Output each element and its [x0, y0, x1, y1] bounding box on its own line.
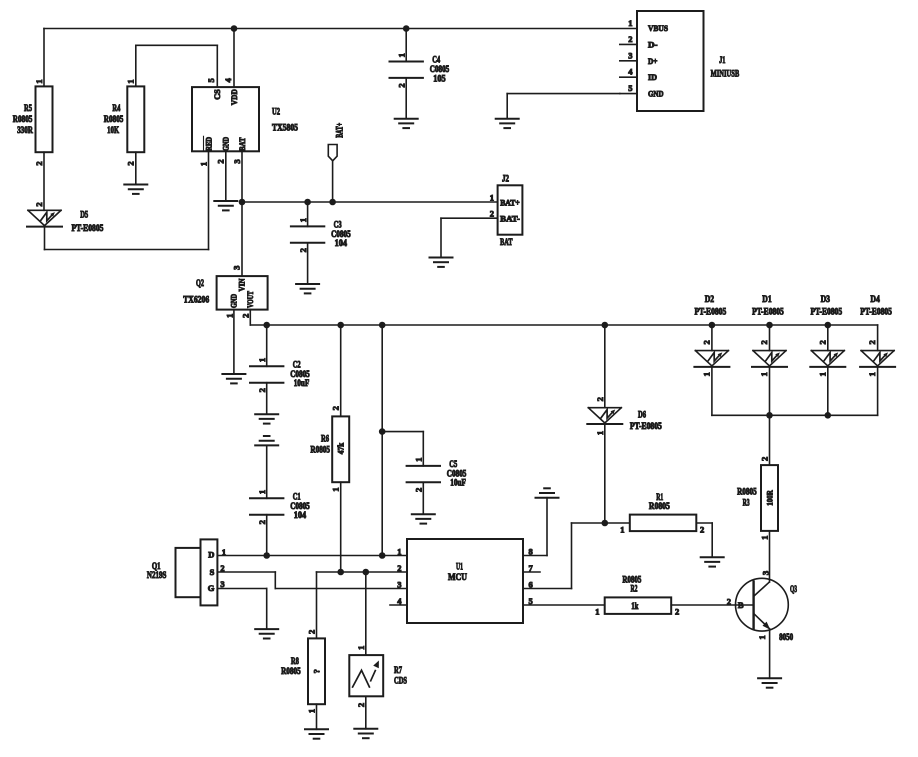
svg-text:2: 2 [867, 340, 877, 344]
node pin2-R6 [337, 569, 344, 576]
svg-text:2: 2 [397, 563, 401, 573]
svg-text:2: 2 [817, 340, 827, 344]
svg-text:D3: D3 [821, 295, 831, 305]
LED D5 [27, 210, 104, 234]
wire Q3 emitter to ground [769, 629, 771, 678]
svg-text:10uF: 10uF [294, 379, 310, 389]
svg-text:U2: U2 [272, 108, 280, 118]
transistor Q3 8050 [736, 578, 798, 643]
wire rail to D1 [759, 325, 770, 351]
pin U1 pin2 number [397, 563, 401, 573]
resistor R2 [595, 576, 679, 617]
resistor R8 [281, 638, 325, 704]
connector J1 MINIUSB [637, 11, 740, 111]
svg-text:2: 2 [126, 161, 136, 165]
pin U1 pin1 number [397, 546, 401, 556]
capacitor C2 [250, 358, 310, 392]
wire U2 GND pin to ground [216, 151, 226, 201]
svg-text:?: ? [311, 669, 321, 673]
svg-text:100R: 100R [765, 490, 775, 506]
wire R5 to D5 [34, 152, 44, 210]
svg-text:RED: RED [203, 137, 213, 151]
svg-text:2: 2 [700, 524, 704, 534]
svg-text:2: 2 [675, 607, 679, 617]
wire C2 to ground [266, 383, 268, 415]
svg-text:N219S: N219S [147, 571, 167, 581]
wire rail down to node [381, 325, 383, 556]
svg-text:BAT: BAT [237, 137, 247, 151]
svg-text:BAT+: BAT+ [500, 197, 520, 207]
svg-text:Q2: Q2 [196, 279, 204, 289]
svg-text:1: 1 [257, 358, 267, 362]
svg-text:8: 8 [529, 546, 533, 556]
svg-text:PT-E0805: PT-E0805 [860, 308, 892, 318]
svg-text:VOUT: VOUT [245, 291, 255, 308]
svg-text:VBUS: VBUS [648, 23, 668, 33]
ground C3 [296, 284, 319, 293]
svg-text:D5: D5 [80, 210, 88, 220]
svg-text:2: 2 [298, 248, 308, 252]
svg-text:C5: C5 [449, 460, 457, 470]
ground R1 [701, 557, 724, 566]
ground R7 [354, 729, 377, 738]
node rail-VDD junction [231, 25, 238, 32]
svg-text:PT-E0805: PT-E0805 [630, 422, 662, 432]
svg-text:CS: CS [212, 89, 222, 100]
svg-text:5: 5 [628, 83, 632, 93]
wire VBUS top rail [44, 28, 637, 30]
svg-text:2: 2 [34, 161, 44, 165]
svg-text:2: 2 [759, 457, 769, 461]
node rail-D3 [825, 322, 832, 329]
IC U2 TX5805 [192, 78, 298, 152]
svg-text:1: 1 [397, 546, 401, 556]
ground U2 GND [214, 201, 237, 210]
svg-text:S: S [210, 567, 215, 577]
svg-text:2: 2 [490, 208, 494, 218]
regulator Q2 TX6206 [183, 276, 267, 318]
capacitor C3 [291, 202, 351, 252]
svg-text:1: 1 [198, 162, 208, 166]
svg-text:R8: R8 [291, 657, 299, 667]
svg-text:104: 104 [335, 239, 348, 249]
LED D2 [694, 295, 729, 376]
power flag BAT+ [328, 123, 344, 202]
svg-text:1: 1 [306, 709, 316, 713]
svg-text:R0805: R0805 [649, 502, 670, 512]
svg-text:MCU: MCU [448, 573, 467, 583]
capacitor C5 [407, 457, 467, 492]
LED D1 [752, 295, 787, 376]
node rail-C2 [263, 322, 270, 329]
wire rail to R5 [43, 29, 45, 87]
svg-text:3: 3 [231, 266, 241, 270]
svg-text:1: 1 [595, 431, 605, 435]
IC U1 MCU [407, 539, 523, 623]
svg-text:C4: C4 [432, 56, 440, 66]
svg-text:1: 1 [867, 372, 877, 376]
node BAT rail junction [239, 199, 246, 206]
wire R8 to ground [306, 704, 316, 729]
svg-text:C3: C3 [334, 220, 342, 230]
wire U1 pin5 to R2 [523, 596, 605, 606]
node C5 branch [379, 428, 386, 435]
wire rail to D4 [867, 325, 878, 351]
wire BAT rail [242, 201, 498, 203]
node rail-D2 [709, 322, 716, 329]
svg-text:2: 2 [240, 314, 250, 318]
ground R8 [305, 729, 328, 738]
svg-text:1: 1 [126, 79, 136, 83]
ground Q1 G [255, 629, 278, 638]
ground C5 [412, 514, 435, 523]
svg-text:1: 1 [356, 646, 366, 650]
svg-text:10uF: 10uF [450, 479, 466, 489]
svg-text:5: 5 [206, 78, 216, 82]
wire inv-ground to C1 [266, 445, 268, 498]
ground C2 [255, 414, 278, 423]
svg-text:1: 1 [759, 372, 769, 376]
svg-text:R2: R2 [631, 584, 638, 594]
svg-text:D+: D+ [648, 56, 658, 66]
wire U1 pin2 net [317, 571, 408, 573]
svg-text:D1: D1 [762, 295, 772, 305]
svg-text:R0805: R0805 [104, 115, 124, 125]
svg-text:1k: 1k [631, 602, 639, 612]
svg-text:J2: J2 [502, 175, 509, 185]
svg-text:GND: GND [221, 137, 231, 151]
resistor R4 [104, 79, 145, 152]
wire D4 to bus [877, 367, 879, 415]
svg-text:1: 1 [628, 18, 632, 28]
svg-text:4: 4 [223, 78, 233, 83]
svg-text:PT-E0805: PT-E0805 [810, 308, 842, 318]
svg-text:2: 2 [216, 159, 226, 163]
svg-text:PT-E0805: PT-E0805 [72, 224, 104, 234]
node BAT rail-C3 [304, 199, 311, 206]
node rail-C5 [379, 322, 386, 329]
svg-text:R0805: R0805 [310, 446, 330, 456]
svg-text:BAT: BAT [500, 238, 513, 248]
svg-text:2: 2 [759, 340, 769, 344]
svg-text:D4: D4 [870, 295, 880, 305]
wire J1 pin2 stub [620, 34, 637, 45]
node rail-C4 junction [403, 25, 410, 32]
pin U1 pin3 number [397, 579, 401, 589]
svg-text:VDD: VDD [229, 89, 239, 105]
LED D4 [860, 295, 895, 376]
wire U1 pin7 stub [523, 563, 540, 573]
svg-text:2: 2 [331, 406, 341, 410]
svg-text:1: 1 [414, 457, 424, 461]
svg-text:C1: C1 [293, 492, 301, 502]
svg-text:2: 2 [701, 340, 711, 344]
svg-text:R4: R4 [112, 104, 120, 114]
svg-text:D2: D2 [705, 295, 715, 305]
node D6-R1-pin6 [602, 520, 609, 527]
ground Q2 [222, 374, 245, 383]
ground R4 [124, 185, 147, 194]
svg-text:Q3: Q3 [790, 585, 797, 595]
svg-text:C2: C2 [293, 360, 301, 370]
resistor R1 [620, 493, 704, 534]
svg-text:2: 2 [220, 563, 224, 573]
wire rail to D2 [701, 325, 712, 351]
ground Q3 [758, 678, 781, 687]
wire R2 to Q3 base [671, 597, 753, 607]
svg-text:3: 3 [628, 50, 632, 60]
resistor R6 [310, 416, 349, 482]
wire D1 to bus [769, 367, 771, 415]
svg-text:2: 2 [356, 703, 366, 707]
svg-text:BAT-: BAT- [500, 213, 520, 223]
capacitor C4 [390, 53, 450, 87]
wire U1 pin8 to inv-ground [523, 498, 547, 557]
wire rail to D6 [595, 325, 605, 408]
wire R3 to Q3 collector [759, 531, 770, 582]
svg-text:1: 1 [759, 535, 769, 539]
wire Q1 G to ground [217, 589, 266, 630]
svg-text:B: B [738, 600, 744, 610]
svg-text:1: 1 [817, 372, 827, 376]
wire J1 pin3 stub [620, 50, 637, 61]
ground inverted above C1 [255, 436, 278, 445]
svg-text:R0805: R0805 [281, 667, 301, 677]
svg-text:10K: 10K [107, 126, 119, 136]
svg-text:3: 3 [760, 571, 770, 575]
wire rail to R6 [331, 325, 341, 416]
svg-text:J1: J1 [719, 56, 726, 66]
svg-text:2: 2 [397, 83, 407, 87]
wire C4 to ground [405, 78, 407, 119]
svg-text:47k: 47k [336, 443, 346, 455]
svg-text:1: 1 [257, 490, 267, 494]
svg-text:2: 2 [628, 34, 632, 44]
ground J1 GND [496, 119, 519, 128]
svg-text:1: 1 [757, 635, 767, 639]
wire LED cathode bus [712, 414, 878, 416]
wire D3 to bus [827, 367, 829, 415]
svg-text:4: 4 [628, 67, 633, 77]
wire Q2 GND to ground [233, 310, 235, 374]
svg-text:1: 1 [701, 372, 711, 376]
svg-text:2: 2 [257, 520, 267, 524]
wire pin2 net to R7 [356, 572, 366, 655]
node rail-R6 [337, 322, 344, 329]
svg-text:3: 3 [397, 579, 401, 589]
ground C4 [395, 119, 418, 128]
resistor R3 [737, 465, 778, 531]
svg-text:5: 5 [529, 596, 533, 606]
wire U1 pin3 net (Q1 S) [217, 572, 407, 589]
svg-text:6: 6 [529, 579, 533, 589]
wire J1 pin4 stub [620, 67, 637, 78]
wire branch to C5 [382, 432, 423, 466]
svg-text:1: 1 [224, 314, 234, 318]
photoresistor R7 CDS [349, 655, 407, 696]
svg-text:R5: R5 [24, 104, 32, 114]
wire rail to C2 [266, 325, 268, 366]
svg-text:U1: U1 [456, 562, 463, 572]
wire C5 to ground [422, 482, 424, 514]
wire R6 to pin2 net [331, 482, 341, 572]
pin J1 pin1 number [628, 18, 632, 28]
wire R7 to ground [356, 696, 366, 729]
node pin1-C1 [263, 552, 270, 559]
svg-text:R0805: R0805 [737, 487, 757, 497]
capacitor C1 [250, 490, 310, 525]
wire rail to C4 [405, 29, 407, 62]
node bus-D1 [766, 412, 773, 419]
svg-text:1: 1 [490, 192, 494, 202]
svg-text:R0805: R0805 [13, 115, 33, 125]
svg-text:2: 2 [595, 397, 605, 401]
node pin1-C5branch [379, 552, 386, 559]
svg-text:GND: GND [648, 89, 664, 99]
svg-text:ID: ID [648, 72, 657, 82]
svg-text:104: 104 [294, 511, 307, 521]
svg-text:2: 2 [34, 202, 44, 206]
svg-text:R7: R7 [394, 666, 402, 676]
svg-text:1: 1 [397, 53, 407, 57]
svg-text:D6: D6 [638, 411, 646, 421]
node bus-D3 [825, 412, 832, 419]
node rail-D1 [766, 322, 773, 329]
svg-text:1: 1 [298, 218, 308, 222]
connector J2 BAT [490, 175, 523, 249]
svg-text:2: 2 [727, 597, 731, 607]
wire D6 to R1 node [595, 424, 605, 523]
svg-text:CDS: CDS [394, 676, 407, 686]
wire U1 pin4 stub [390, 596, 407, 606]
svg-text:1: 1 [595, 607, 599, 617]
wire U2 VDD pin [233, 29, 235, 88]
svg-text:105: 105 [433, 74, 446, 84]
wire J2 BAT- to ground [441, 218, 498, 257]
svg-text:2: 2 [257, 388, 267, 392]
svg-text:TX5805: TX5805 [272, 124, 298, 134]
transistor Q1 N219S [147, 539, 226, 605]
wire R1 to ground [696, 523, 712, 557]
wire rail-R4-CS [136, 45, 218, 87]
svg-text:PT-E0805: PT-E0805 [752, 308, 784, 318]
wire R4 to ground [126, 152, 136, 184]
svg-text:R6: R6 [321, 435, 329, 445]
ground inverted U1 pin8 [536, 488, 559, 497]
wire U1 pin6 to R1 node [523, 523, 605, 589]
wire bus to R3 [759, 415, 769, 465]
ground J2 BAT- [430, 258, 453, 267]
wire C1 to node [266, 515, 268, 556]
svg-text:1: 1 [34, 79, 44, 83]
svg-text:BAT+: BAT+ [334, 123, 344, 138]
svg-text:330R: 330R [17, 126, 33, 136]
svg-text:MINIUSB: MINIUSB [711, 69, 740, 79]
LED D6 [587, 408, 662, 432]
svg-text:D: D [208, 550, 214, 560]
wire J1 pin5 GND [507, 83, 637, 119]
svg-text:1: 1 [620, 524, 624, 534]
svg-text:D-: D- [648, 39, 658, 49]
wire VOUT rail [250, 310, 877, 325]
svg-text:1: 1 [331, 487, 341, 491]
wire rail to D3 [817, 325, 828, 351]
node pin2-R7 [363, 569, 370, 576]
node BAT rail-flag [329, 199, 336, 206]
resistor R5 [13, 79, 53, 152]
svg-text:R3: R3 [743, 498, 750, 508]
svg-text:TX6206: TX6206 [183, 296, 209, 306]
wire U1 pin1 net (Q1 D) [217, 555, 407, 557]
svg-text:VIN: VIN [236, 278, 246, 292]
svg-text:8050: 8050 [779, 633, 793, 643]
svg-text:GND: GND [229, 294, 239, 308]
svg-text:PT-E0805: PT-E0805 [695, 308, 727, 318]
node rail-D6 [602, 322, 609, 329]
svg-text:2: 2 [306, 630, 316, 634]
wire C3 to ground [307, 243, 309, 284]
svg-text:2: 2 [414, 488, 424, 492]
svg-text:1: 1 [222, 547, 226, 557]
svg-text:3: 3 [232, 159, 242, 163]
wire U2 BAT pin to Q2 VIN [231, 151, 242, 276]
wire node to R1 [605, 522, 630, 524]
wire pin2 net to R8 [306, 572, 316, 638]
wire D2 to bus [711, 367, 713, 415]
wire D5 to U2 RED pin [45, 151, 209, 249]
LED D3 [810, 295, 845, 376]
svg-text:G: G [208, 583, 215, 593]
